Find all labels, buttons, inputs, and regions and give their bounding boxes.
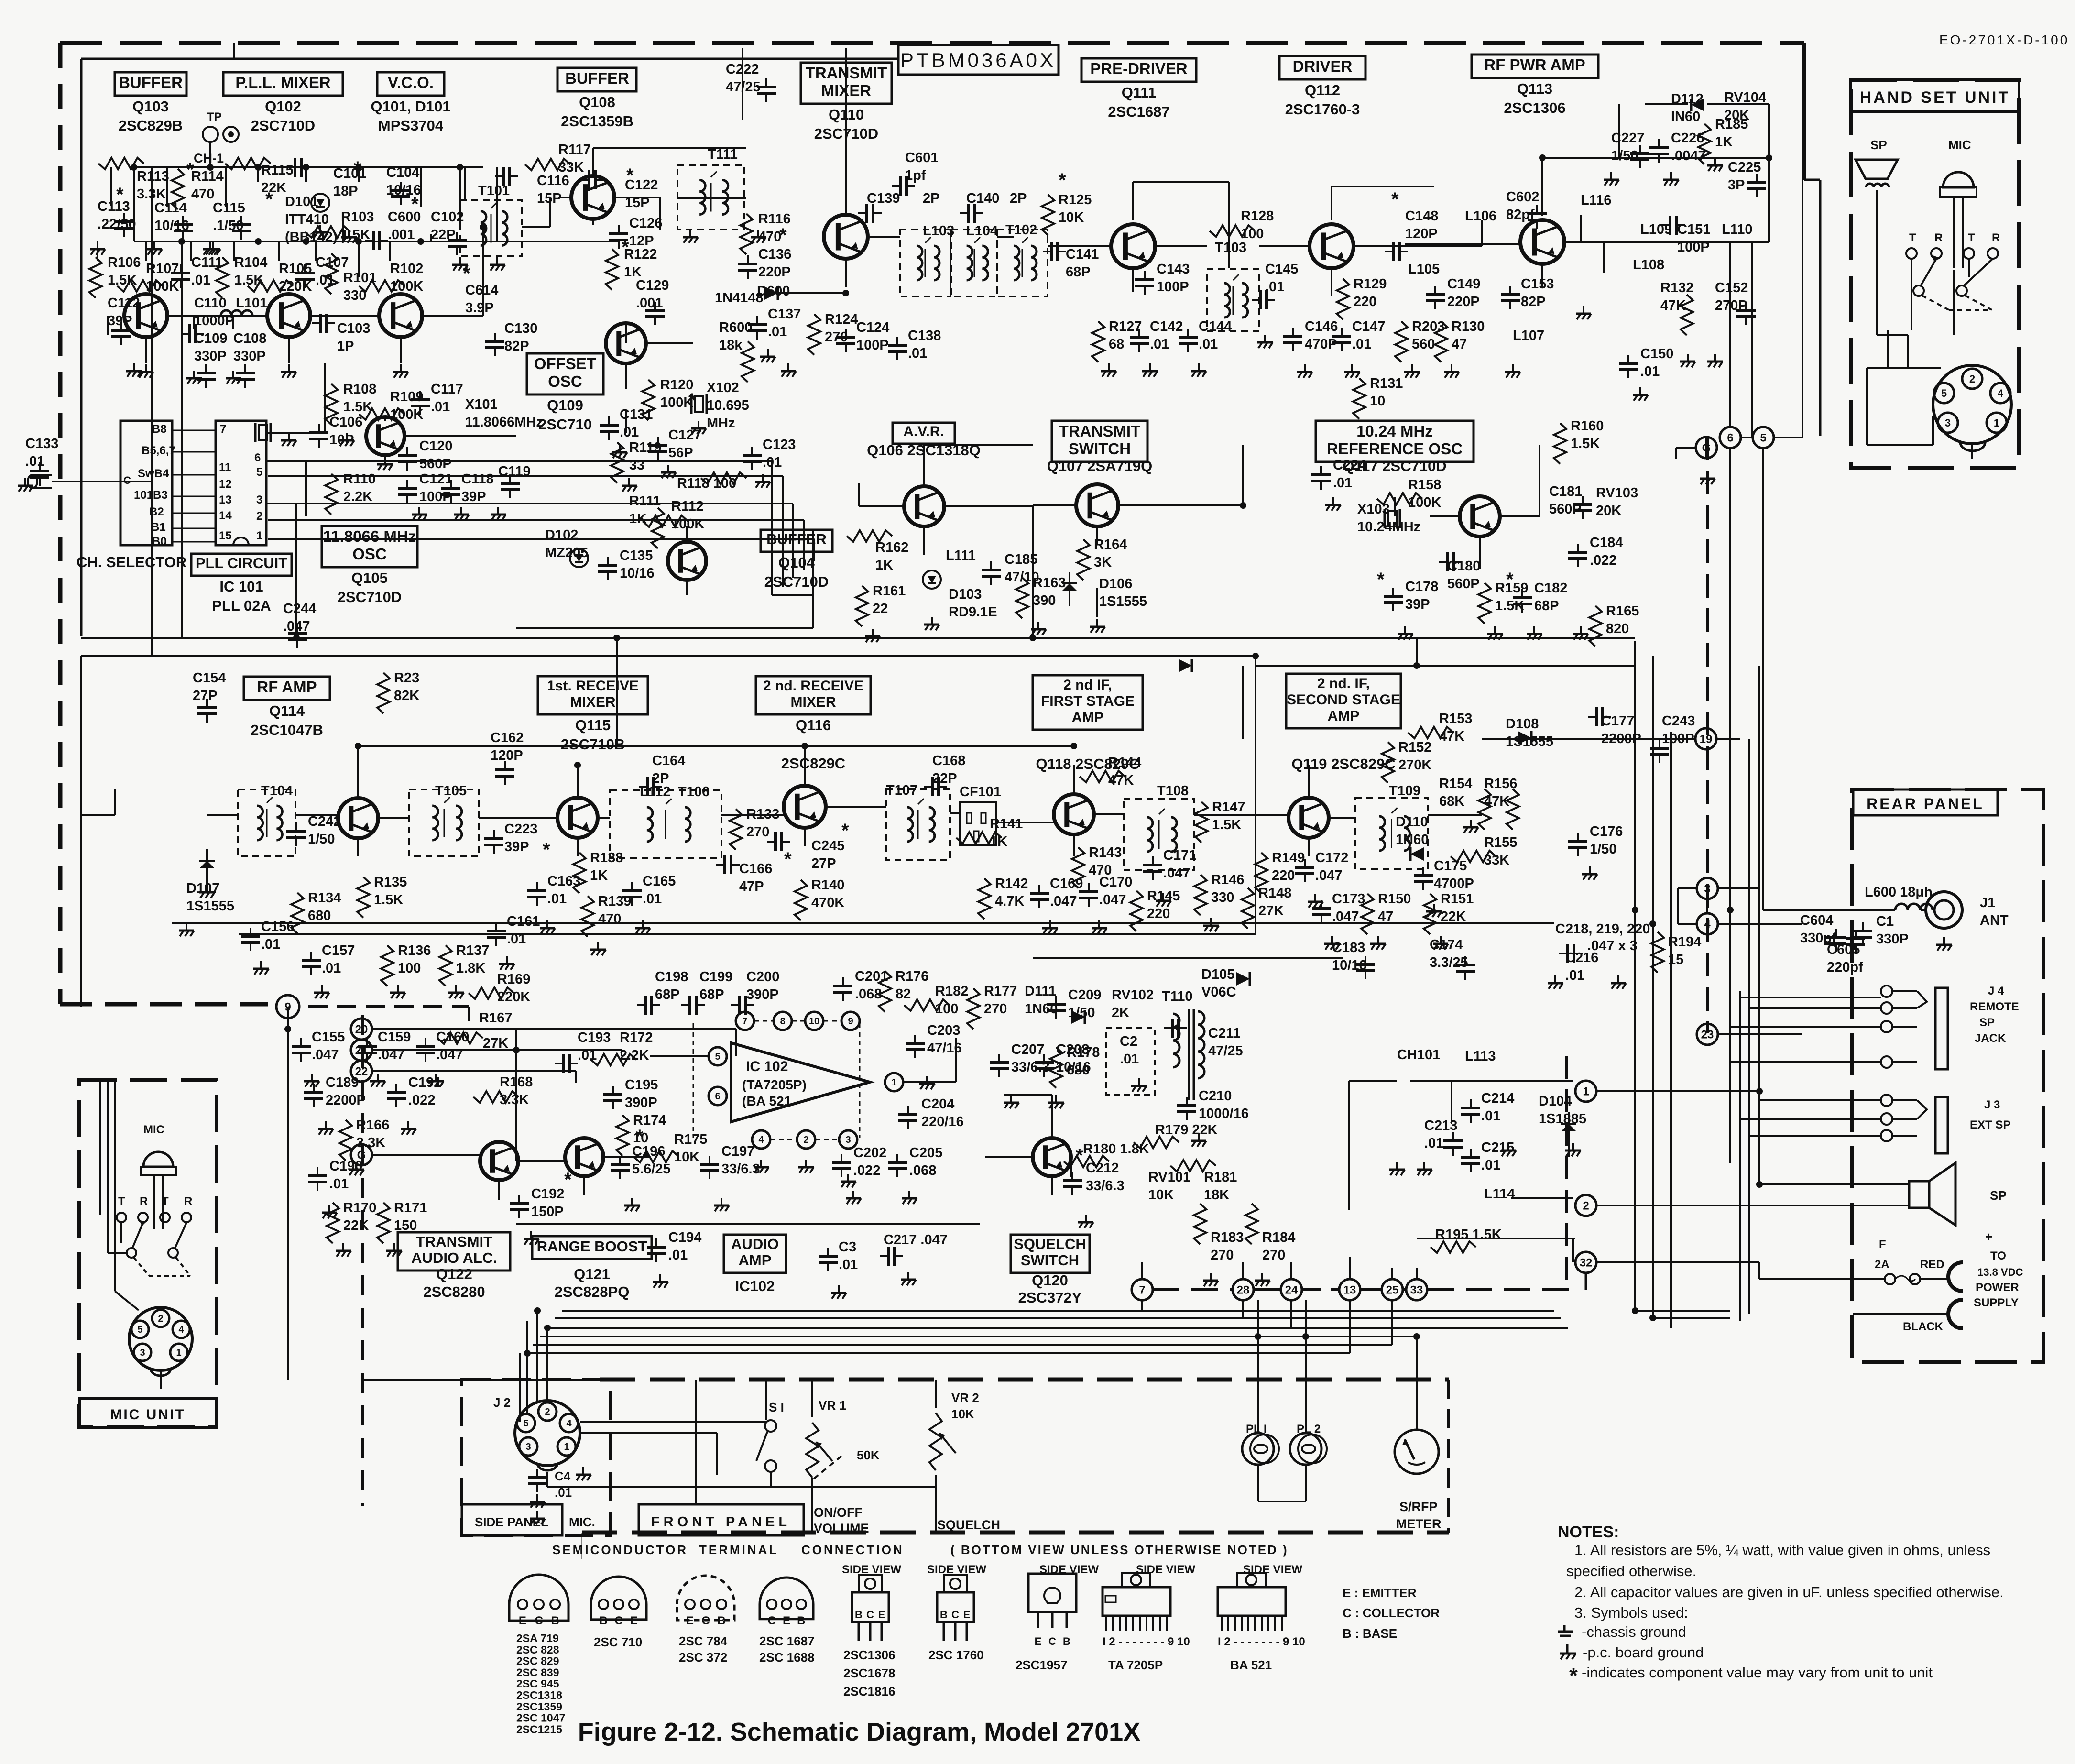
node pole [1913, 285, 1924, 296]
svg-text:VR 2: VR 2 [951, 1391, 979, 1405]
diode D600 [764, 286, 778, 300]
svg-text:L106: L106 [1465, 208, 1496, 224]
transistor Q106 [904, 486, 944, 526]
transformer T104 [238, 789, 295, 856]
node 25 [1382, 1279, 1403, 1300]
svg-text:C106: C106 [329, 415, 362, 430]
svg-text:.001: .001 [388, 227, 415, 242]
wire [384, 417, 386, 421]
ground [622, 478, 637, 492]
resistor R160 [1554, 423, 1566, 464]
node 33 [1406, 1279, 1427, 1300]
wire [373, 1154, 480, 1156]
svg-text:2SC8280: 2SC8280 [423, 1283, 485, 1300]
wire mic2 [107, 1080, 109, 1253]
resistor R118 [701, 472, 746, 484]
wire [373, 1070, 576, 1072]
svg-text:C217 .047: C217 .047 [884, 1232, 948, 1248]
wire [1596, 1261, 1759, 1263]
svg-text:(BA 521: (BA 521 [742, 1094, 791, 1108]
wire [1887, 330, 1889, 368]
svg-text:T107: T107 [886, 783, 917, 798]
svg-text:C151: C151 [1677, 222, 1710, 237]
svg-text:1: 1 [256, 529, 262, 542]
svg-text:*: * [636, 1126, 644, 1147]
svg-text:10: 10 [1370, 394, 1385, 409]
resistor R155 [1451, 851, 1496, 862]
svg-text:1pf: 1pf [905, 168, 926, 183]
front panel bottom dash-dot border [582, 1531, 1449, 1535]
capacitor C185 [982, 561, 1001, 585]
capacitor C193 [555, 1054, 578, 1073]
svg-text:2: 2 [256, 510, 262, 523]
connector J2 6-pin [515, 1401, 580, 1466]
wire [1405, 243, 1520, 245]
svg-text:27K: 27K [1258, 903, 1284, 919]
svg-text:C : COLLECTOR: C : COLLECTOR [1343, 1606, 1440, 1620]
wire [1132, 182, 1134, 220]
svg-text:6: 6 [254, 451, 261, 464]
ground [18, 478, 33, 492]
capacitor C102 [448, 232, 467, 255]
wire [1290, 1300, 1292, 1328]
svg-text:1.5K: 1.5K [1495, 598, 1524, 614]
ground [203, 241, 218, 255]
capacitor C141 [1043, 242, 1066, 261]
svg-text:HAND SET UNIT: HAND SET UNIT [1860, 88, 2010, 107]
node 6 [1720, 427, 1741, 448]
svg-text:1/50: 1/50 [1611, 148, 1638, 164]
svg-text:T: T [162, 1195, 169, 1208]
node jack contact [1881, 1002, 1892, 1014]
wire [1141, 1300, 1143, 1311]
wire ic dash [859, 1023, 861, 1138]
transformer T110 secondary [1198, 1011, 1204, 1078]
svg-text:3.3K: 3.3K [500, 1092, 529, 1107]
svg-text:50K: 50K [857, 1448, 880, 1462]
wire squelch link [812, 1486, 936, 1488]
resistor R145 [1130, 891, 1143, 931]
svg-text:REMOTE: REMOTE [1970, 1000, 2019, 1013]
diode D107 [199, 849, 215, 884]
pin 5 J2 [517, 1414, 535, 1432]
svg-text:.047: .047 [1163, 866, 1190, 881]
wire [423, 315, 483, 317]
resistor R136 [381, 945, 393, 986]
svg-text:C214: C214 [1481, 1091, 1514, 1106]
svg-text:7: 7 [742, 1016, 747, 1027]
svg-text:2P: 2P [1010, 191, 1027, 206]
svg-text:C216: C216 [1565, 950, 1598, 965]
wire [1635, 1310, 1730, 1312]
resistor R166 [339, 1120, 352, 1161]
wire [546, 1328, 548, 1401]
wire [592, 148, 594, 175]
diode D106 [1062, 572, 1077, 606]
resistor R171 [377, 1203, 390, 1243]
svg-text:E: E [519, 1614, 526, 1627]
section header RF AMP [244, 677, 330, 738]
resistor R113 [98, 158, 144, 169]
microphone MIC unit [141, 1152, 176, 1229]
svg-text:*: * [1569, 1663, 1578, 1688]
svg-text:.01: .01 [1481, 1158, 1500, 1173]
svg-text:1: 1 [176, 1348, 181, 1358]
ground [1463, 820, 1478, 833]
svg-text:Q122: Q122 [436, 1266, 472, 1282]
svg-text:Q119 2SC829C: Q119 2SC829C [1291, 756, 1395, 772]
ground [1297, 364, 1312, 378]
svg-text:R179 22K: R179 22K [1155, 1122, 1218, 1138]
svg-text:Q121: Q121 [574, 1266, 610, 1282]
bottom node row line [1254, 1288, 1280, 1291]
wire stub [145, 337, 147, 363]
node 13 [1339, 1279, 1360, 1300]
svg-text:4: 4 [566, 1418, 572, 1429]
capacitor C107 [295, 264, 315, 288]
svg-text:C114: C114 [154, 200, 187, 216]
ground [1548, 975, 1563, 989]
node jack contact [1881, 1095, 1892, 1106]
svg-text:Q103: Q103 [132, 98, 169, 115]
capacitor C222 [757, 78, 776, 102]
svg-text:B: B [717, 1614, 725, 1627]
resistor R154 [1478, 789, 1491, 830]
wire [1740, 1118, 1881, 1120]
svg-text:.01: .01 [668, 1248, 688, 1263]
wire [1048, 245, 1111, 247]
svg-text:R117: R117 [558, 142, 591, 157]
svg-text:R: R [184, 1195, 192, 1208]
junction [1539, 154, 1546, 161]
wire [923, 445, 925, 486]
wire stub [358, 241, 360, 277]
node 3 [1697, 878, 1718, 899]
svg-text:3K: 3K [1094, 555, 1112, 570]
svg-text:C102: C102 [431, 209, 464, 225]
svg-text:*: * [411, 194, 419, 215]
svg-text:*: * [622, 237, 629, 258]
node 32 [1575, 1252, 1596, 1273]
svg-text:J 4: J 4 [1988, 985, 2004, 997]
wire [603, 1156, 650, 1158]
svg-text:C223: C223 [504, 822, 537, 837]
svg-text:REFERENCE OSC: REFERENCE OSC [1327, 440, 1463, 458]
svg-text:68K: 68K [1439, 794, 1464, 809]
ground [612, 445, 627, 458]
ground [1417, 1162, 1432, 1175]
svg-text:C126: C126 [629, 216, 662, 231]
wire [772, 292, 846, 294]
wire selector [172, 541, 216, 543]
capacitor C121 [398, 480, 417, 504]
svg-text:R125: R125 [1059, 192, 1092, 208]
wire red [1920, 1278, 1948, 1280]
svg-text:47K: 47K [1660, 298, 1686, 313]
capacitor C201 [833, 977, 852, 1001]
transistor Q107 [1076, 484, 1118, 526]
svg-text:C204: C204 [921, 1096, 954, 1112]
svg-text:47/25: 47/25 [1208, 1043, 1243, 1059]
svg-text:10K: 10K [1148, 1187, 1174, 1203]
wire [1729, 448, 1731, 1163]
capacitor C600 [365, 231, 388, 250]
svg-text:B: B [1063, 1635, 1070, 1647]
wire [153, 1231, 154, 1291]
svg-text:E: E [963, 1609, 971, 1621]
svg-text:*: * [543, 839, 550, 860]
svg-text:IC 102: IC 102 [746, 1059, 788, 1074]
pin 1 mic [170, 1344, 187, 1361]
resistor R117 [525, 159, 570, 170]
svg-text:32: 32 [1580, 1257, 1593, 1270]
pin 8 IC102 [774, 1012, 792, 1030]
svg-text:C601: C601 [905, 150, 938, 165]
svg-text:4: 4 [758, 1135, 764, 1145]
capacitor C223 [484, 830, 503, 854]
svg-text:2SA 719: 2SA 719 [516, 1632, 559, 1644]
wire mic1 [99, 1080, 101, 1215]
ground [1389, 1162, 1405, 1175]
svg-text:J 3: J 3 [1984, 1098, 2000, 1111]
ground [635, 920, 650, 934]
wire pll bundle v [792, 504, 794, 578]
svg-text:20: 20 [355, 1023, 368, 1036]
svg-text:C154: C154 [193, 670, 226, 686]
wire [1675, 448, 1677, 459]
svg-text:MHz: MHz [707, 416, 735, 431]
svg-text:IC102: IC102 [735, 1278, 775, 1294]
pin 3 IC102 [839, 1130, 857, 1149]
svg-text:MIXER: MIXER [570, 694, 615, 710]
svg-text:470: 470 [191, 186, 214, 202]
svg-text:L112: L112 [640, 784, 671, 800]
capacitor C242 [286, 822, 306, 846]
crystal X102 [691, 394, 707, 414]
svg-text:C141: C141 [1066, 247, 1099, 262]
svg-text:100P: 100P [419, 489, 452, 504]
capacitor C184 [1568, 544, 1587, 567]
wire [295, 814, 338, 816]
resistor R140 [795, 880, 807, 920]
box REAR PANEL outline [1852, 789, 2043, 1362]
wire mic arm2 [175, 1223, 186, 1248]
svg-text:C227: C227 [1611, 131, 1644, 146]
svg-text:-p.c. board ground: -p.c. board ground [1583, 1644, 1704, 1661]
svg-text:R106: R106 [108, 255, 141, 270]
svg-text:R182: R182 [935, 984, 968, 999]
IC CH SELECTOR block [120, 421, 172, 545]
capacitor C213 [1443, 1132, 1463, 1156]
svg-text:220pf: 220pf [1827, 960, 1863, 975]
svg-text:C119: C119 [498, 464, 531, 479]
capacitor C181 [1573, 496, 1592, 519]
capacitor C226 [1649, 139, 1669, 163]
svg-text:C116: C116 [537, 173, 569, 188]
svg-text:1.5K: 1.5K [1212, 817, 1241, 833]
wire [1768, 104, 1770, 242]
svg-text:270: 270 [825, 329, 848, 345]
svg-text:E: E [1035, 1635, 1042, 1647]
wire [1256, 665, 1635, 667]
wire jack [1892, 1135, 1917, 1137]
wire mic3 [114, 1080, 116, 1291]
capacitor C164 [639, 777, 662, 796]
svg-text:C614: C614 [465, 283, 498, 298]
diode D103 [923, 570, 941, 589]
wire [239, 933, 1256, 935]
svg-text:B1: B1 [151, 521, 166, 534]
ground [530, 1511, 545, 1524]
svg-text:CH101: CH101 [1397, 1047, 1440, 1063]
svg-text:Q111: Q111 [1122, 84, 1156, 101]
svg-text:2SC 839: 2SC 839 [516, 1666, 559, 1678]
capacitor C144 [1179, 329, 1198, 352]
resistor R103 [305, 226, 350, 238]
wire selector [172, 528, 216, 529]
wire [646, 342, 693, 344]
svg-text:C195: C195 [625, 1077, 658, 1093]
pin 2 J2 [538, 1402, 557, 1421]
svg-text:.047: .047 [1050, 894, 1077, 909]
svg-text:OFFSET: OFFSET [534, 355, 596, 373]
svg-text:2.2K: 2.2K [343, 489, 372, 504]
junction [524, 1350, 531, 1357]
svg-text:C205: C205 [909, 1145, 942, 1161]
ground [336, 1243, 351, 1257]
wire stub [225, 167, 227, 207]
wire [362, 1379, 600, 1381]
pin 6 IC102 [709, 1087, 727, 1105]
fuse F [1885, 1274, 1920, 1284]
svg-text:1st. RECEIVE: 1st. RECEIVE [547, 678, 639, 694]
svg-text:.047: .047 [1315, 868, 1342, 883]
svg-text:.01: .01 [329, 1176, 349, 1192]
ground [199, 885, 215, 898]
transistor Q105 [366, 417, 404, 455]
svg-text:Q114: Q114 [269, 702, 305, 719]
svg-text:1000/16: 1000/16 [1199, 1106, 1249, 1121]
capacitor C210 [1177, 1097, 1196, 1120]
section header OFFSET OSC [527, 353, 603, 433]
wire [311, 315, 379, 317]
wire [115, 1291, 139, 1310]
wire [1676, 447, 1696, 449]
box C2 dashed [1106, 1028, 1155, 1095]
wire stub [389, 241, 391, 261]
svg-text:RF AMP: RF AMP [257, 678, 317, 696]
capacitor C212 [1063, 1172, 1082, 1195]
box MIC UNIT outline [79, 1080, 217, 1427]
svg-text:D102: D102 [545, 527, 578, 543]
crystal X103 [1385, 509, 1400, 528]
svg-text:.047: .047 [312, 1047, 339, 1063]
op-amp IC102 [731, 1043, 870, 1122]
svg-text:C170: C170 [1099, 875, 1132, 890]
resistor R133 [730, 809, 742, 850]
svg-text:G: G [357, 1149, 366, 1162]
wire [935, 1380, 937, 1408]
pin 3 J2 [519, 1437, 537, 1456]
svg-text:C198: C198 [655, 969, 688, 985]
ground [1131, 1078, 1147, 1092]
svg-text:.047: .047 [1099, 892, 1126, 908]
capacitor C605 [1846, 930, 1865, 953]
package TO-92 2SC784 [677, 1576, 734, 1627]
svg-text:C117: C117 [431, 382, 463, 397]
wire [1416, 638, 1418, 666]
svg-text:3: 3 [140, 1348, 145, 1358]
capacitor C131 [600, 416, 619, 440]
pin 10 IC102 [805, 1012, 823, 1030]
capacitor C103 [312, 314, 335, 333]
wire [811, 1380, 813, 1417]
wire [1094, 813, 1124, 815]
svg-text:C145: C145 [1265, 262, 1298, 277]
ground [281, 364, 296, 378]
wire mic dash [134, 1258, 149, 1276]
transformer T110 primary [1173, 1014, 1179, 1067]
svg-text:.01: .01 [643, 891, 662, 907]
transistor Q116 [784, 786, 826, 828]
ground [1191, 1133, 1206, 1147]
svg-text:C203: C203 [927, 1023, 960, 1038]
capacitor C108 [236, 364, 255, 388]
svg-text:47: 47 [1452, 337, 1467, 352]
svg-text:C113: C113 [98, 199, 130, 214]
svg-text:SIDE VIEW: SIDE VIEW [1136, 1563, 1195, 1576]
svg-text:SIDE VIEW: SIDE VIEW [927, 1563, 986, 1576]
svg-text:X101: X101 [465, 397, 498, 412]
inner border dash-dot right [1706, 436, 1709, 1033]
wire [468, 1007, 470, 1021]
ground [1582, 866, 1597, 880]
node pole mic [168, 1248, 178, 1258]
svg-text:X102: X102 [707, 380, 739, 395]
wire jack [1892, 1007, 1917, 1009]
wire [151, 167, 153, 656]
wire [1707, 103, 1769, 105]
wire [1739, 991, 1741, 1321]
resistor R181 [1170, 1160, 1216, 1172]
resistor R105 [248, 280, 293, 292]
svg-text:19: 19 [1700, 733, 1713, 746]
junction [1632, 1307, 1638, 1314]
svg-text:3: 3 [525, 1442, 531, 1452]
wire [209, 142, 211, 167]
transistor Q103 [124, 294, 167, 337]
connector J1 ANT [1926, 892, 1962, 928]
svg-text:C175: C175 [1434, 858, 1467, 874]
svg-text:1: 1 [1994, 417, 1999, 429]
inductor L101 [221, 310, 252, 316]
wire [1051, 1176, 1053, 1195]
svg-text:1.8K: 1.8K [456, 961, 485, 976]
node 24 [1281, 1279, 1302, 1300]
svg-text:2SC1306: 2SC1306 [843, 1648, 895, 1662]
wire [518, 1160, 565, 1162]
svg-text:270: 270 [1211, 1248, 1234, 1263]
wire [1889, 445, 1890, 472]
wire [160, 1371, 162, 1389]
svg-text:100: 100 [935, 1001, 958, 1017]
resistor R179 [1134, 1137, 1179, 1148]
svg-text:2SC1816: 2SC1816 [843, 1684, 895, 1698]
svg-text:R148: R148 [1258, 886, 1291, 901]
ground [370, 1074, 385, 1087]
capacitor C195 [603, 1086, 622, 1109]
transformer T111 [677, 165, 744, 230]
